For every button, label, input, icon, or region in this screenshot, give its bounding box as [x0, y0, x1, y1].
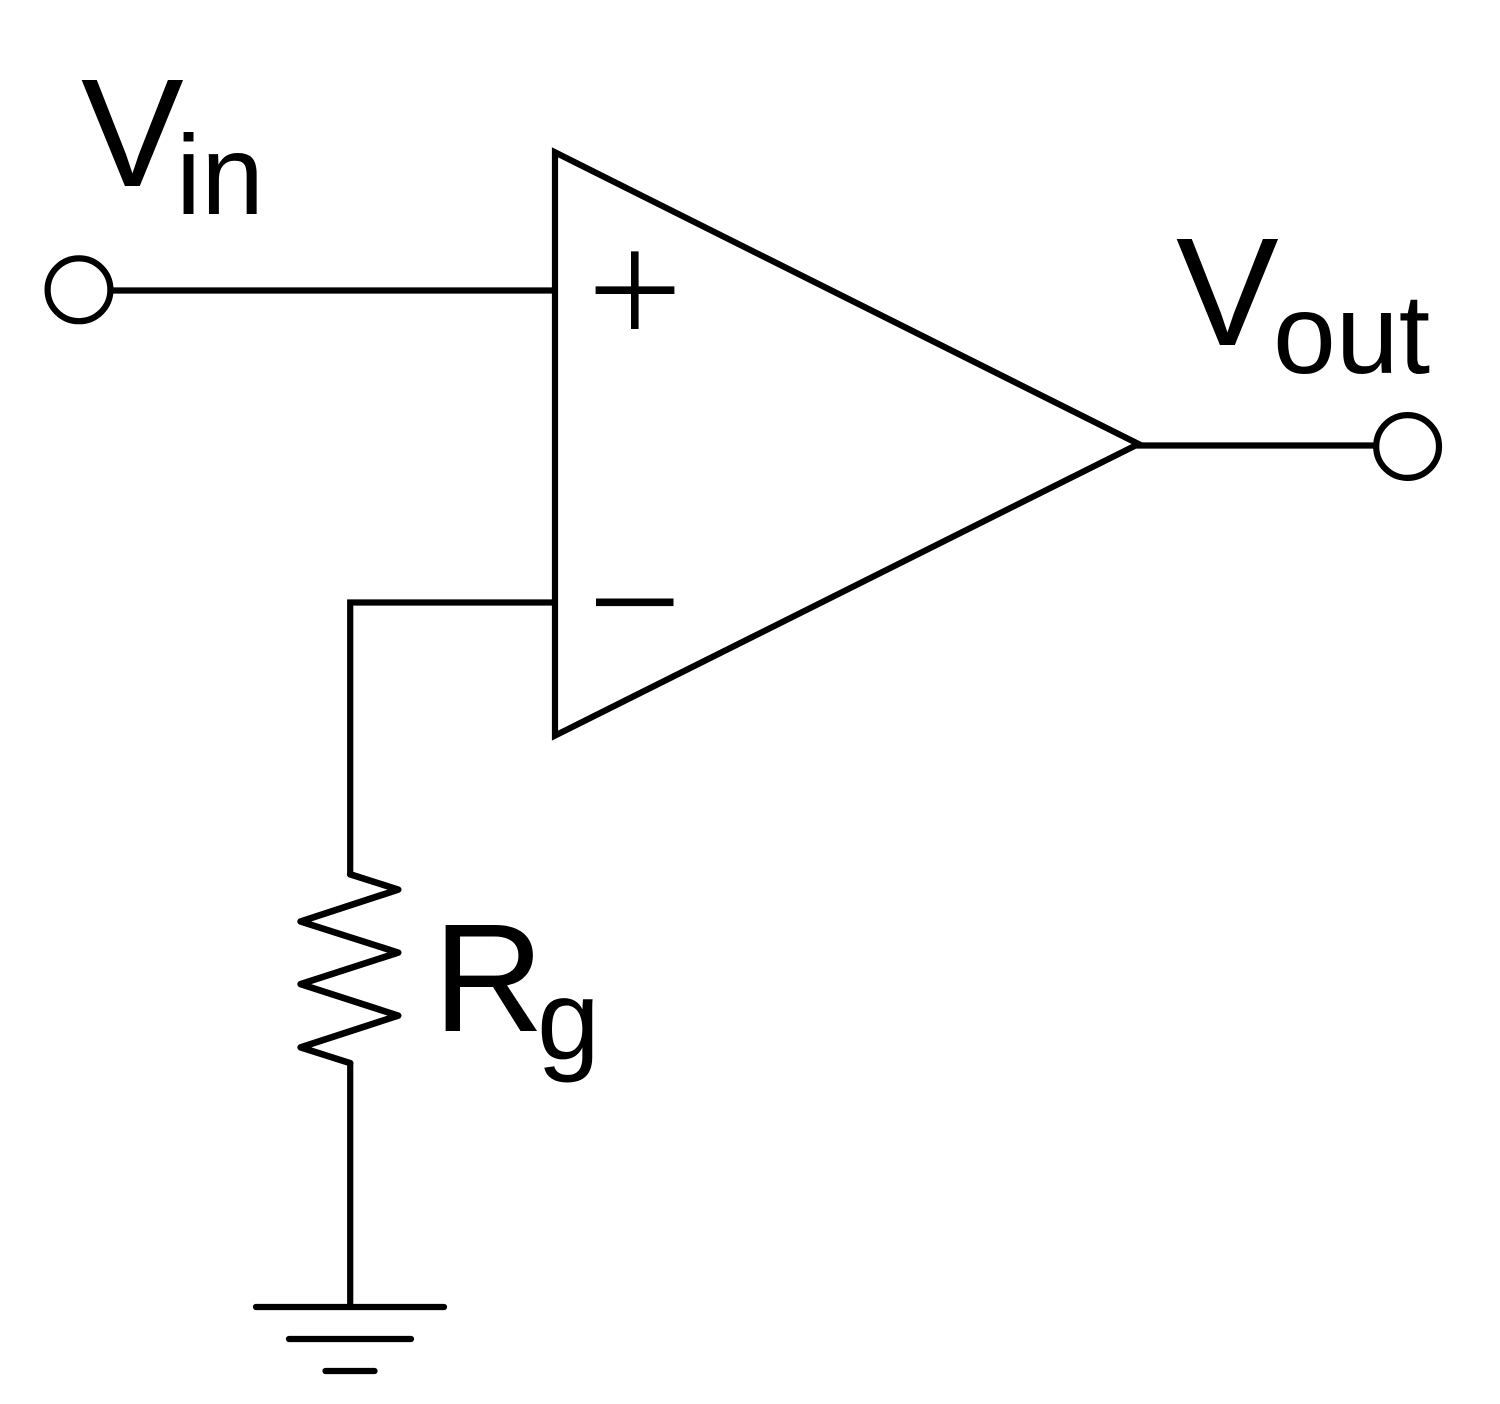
node Vin label	[81, 47, 264, 238]
wire output to Vout terminal	[1136, 442, 1377, 448]
wire Rg to ground	[347, 1063, 353, 1307]
terminal Vout	[1376, 415, 1439, 478]
label Rg	[433, 892, 600, 1083]
svg-text:out: out	[1273, 271, 1430, 397]
svg-text:V: V	[1176, 206, 1279, 378]
terminal Vin	[48, 258, 111, 321]
svg-text:V: V	[81, 47, 184, 219]
svg-text:in: in	[176, 112, 264, 238]
ground	[256, 1307, 444, 1371]
op-amp - input marker	[596, 599, 674, 607]
node Vout label	[1176, 206, 1430, 397]
svg-text:R: R	[433, 892, 544, 1064]
op-amp U1	[555, 152, 1139, 735]
resistor Rg	[301, 874, 399, 1063]
op-amp + input marker	[596, 251, 675, 329]
wire - input to resistor Rg	[350, 603, 556, 875]
svg-text:g: g	[537, 957, 600, 1083]
wire Vin to + input	[110, 287, 556, 293]
